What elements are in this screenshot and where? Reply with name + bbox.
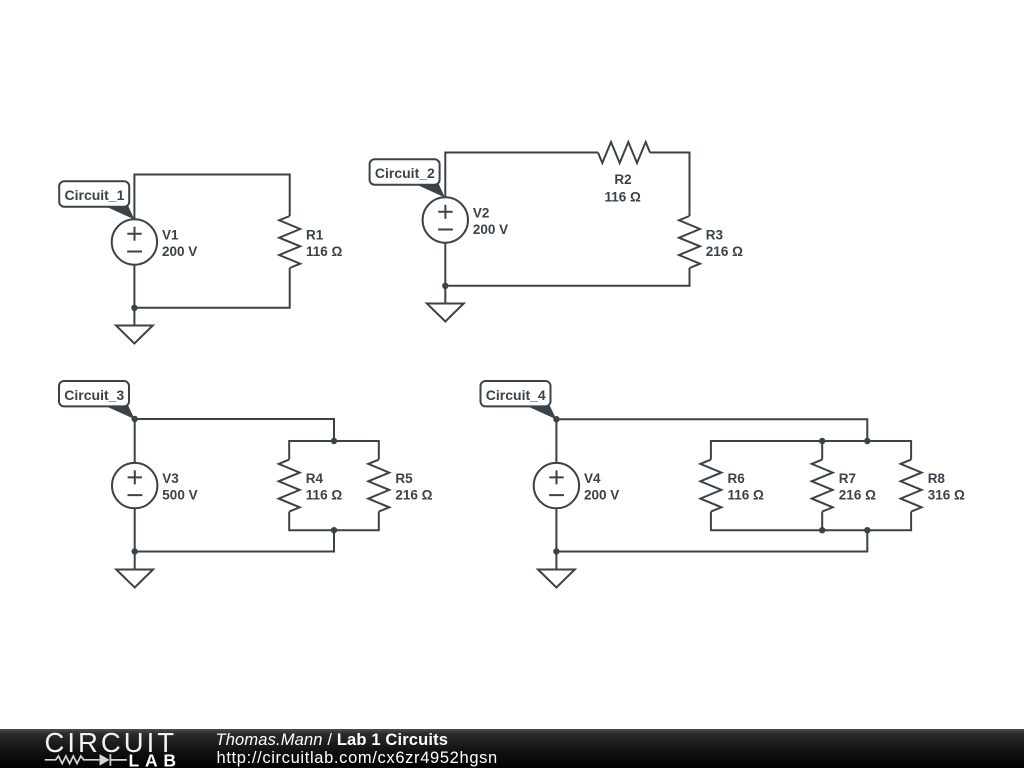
- svg-text:200 V: 200 V: [473, 222, 508, 237]
- svg-text:316 Ω: 316 Ω: [928, 488, 965, 503]
- resistor R6: [700, 460, 721, 512]
- svg-text:Circuit_2: Circuit_2: [375, 165, 435, 181]
- svg-text:V2: V2: [473, 206, 490, 221]
- wire R7 bottom stub: [821, 512, 823, 531]
- wire parallel top rail C3: [289, 441, 379, 460]
- node C3 rail feed top: [331, 438, 337, 444]
- voltage source V2: [423, 197, 468, 242]
- node C3 top corner: [132, 416, 138, 422]
- svg-text:200 V: 200 V: [162, 244, 197, 259]
- svg-text:R3: R3: [706, 228, 724, 243]
- svg-text:R8: R8: [928, 471, 946, 486]
- resistor R1: [279, 216, 300, 268]
- wire top C1: [134, 175, 289, 220]
- svg-text:V1: V1: [162, 228, 179, 243]
- wire ground stub C2: [444, 286, 446, 304]
- wire parallel bottom rail C3: [289, 512, 379, 531]
- svg-text:R6: R6: [728, 471, 746, 486]
- ground C3: [116, 570, 153, 588]
- svg-text:LAB: LAB: [129, 750, 182, 768]
- ground C1: [116, 326, 153, 344]
- node label Circuit_3: [59, 381, 135, 419]
- node label Circuit_4: [481, 381, 557, 419]
- node label Circuit_1: [59, 181, 134, 219]
- svg-text:216 Ω: 216 Ω: [706, 244, 743, 259]
- svg-text:R1: R1: [306, 228, 324, 243]
- node C1 ground junction: [131, 305, 137, 311]
- wire parallel top rail C4: [711, 441, 911, 460]
- resistor R5: [368, 460, 389, 512]
- wire ground stub C4: [555, 552, 557, 570]
- svg-text:200 V: 200 V: [584, 488, 619, 503]
- logo resistor-diode symbol: [45, 756, 100, 764]
- wire top C2: [445, 153, 689, 217]
- wire bottom C2: [445, 243, 689, 286]
- node C4 rail feed top: [864, 438, 870, 444]
- node C4 rail feed bottom: [864, 527, 870, 533]
- node C4 ground junction: [553, 548, 559, 554]
- svg-text:116 Ω: 116 Ω: [306, 244, 343, 259]
- svg-text:R5: R5: [395, 471, 413, 486]
- svg-text:http://circuitlab.com/cx6zr495: http://circuitlab.com/cx6zr4952hgsn: [217, 749, 498, 767]
- svg-text:Circuit_1: Circuit_1: [65, 187, 125, 203]
- resistor R8: [901, 460, 922, 512]
- svg-text:216 Ω: 216 Ω: [839, 488, 876, 503]
- svg-text:R2: R2: [614, 172, 631, 187]
- wire bottom C1: [134, 265, 289, 308]
- resistor R7: [812, 460, 833, 512]
- wire parallel bottom rail C4: [711, 512, 911, 531]
- resistor R4: [279, 460, 300, 512]
- wire top C3: [135, 419, 334, 463]
- resistor R2: [598, 142, 650, 163]
- svg-text:Circuit_4: Circuit_4: [486, 387, 546, 403]
- resistor R3: [679, 216, 700, 268]
- voltage source V3: [112, 463, 157, 508]
- node C4 top corner: [553, 416, 559, 422]
- ground C4: [538, 570, 575, 588]
- wire ground stub C1: [133, 308, 135, 326]
- voltage source V1: [112, 219, 157, 264]
- svg-text:216 Ω: 216 Ω: [395, 488, 432, 503]
- node C3 ground junction: [132, 548, 138, 554]
- wire R7 top stub: [821, 441, 823, 460]
- node label Circuit_2: [370, 159, 445, 197]
- node R7 top junction: [819, 438, 825, 444]
- wire top C4: [556, 419, 867, 463]
- wire ground stub C3: [134, 552, 136, 570]
- svg-text:Circuit_3: Circuit_3: [64, 387, 124, 403]
- node C3 rail feed bottom: [331, 527, 337, 533]
- svg-text:V3: V3: [162, 471, 179, 486]
- svg-text:V4: V4: [584, 471, 601, 486]
- svg-text:116 Ω: 116 Ω: [306, 488, 343, 503]
- svg-text:116 Ω: 116 Ω: [728, 488, 765, 503]
- svg-text:R4: R4: [306, 471, 324, 486]
- footer bar: [0, 729, 1024, 768]
- wire bottom C4: [556, 508, 867, 551]
- node C2 ground junction: [442, 283, 448, 289]
- svg-text:Thomas.Mann / Lab 1 Circuits: Thomas.Mann / Lab 1 Circuits: [216, 731, 449, 749]
- svg-text:500 V: 500 V: [162, 488, 197, 503]
- svg-text:116 Ω: 116 Ω: [605, 189, 642, 204]
- ground C2: [427, 304, 464, 322]
- wire bottom C3: [135, 508, 334, 551]
- voltage source V4: [534, 463, 579, 508]
- svg-text:R7: R7: [839, 471, 856, 486]
- node R7 bottom junction: [819, 527, 825, 533]
